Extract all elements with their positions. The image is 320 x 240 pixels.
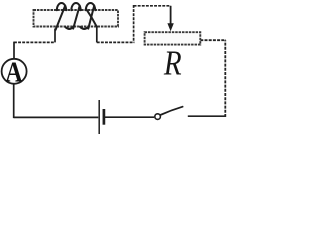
wire: vertical from top rail down — [133, 5, 135, 42]
rheostat R body — [145, 32, 201, 44]
wire: right vertical — [224, 40, 226, 117]
switch S blade (open) — [160, 107, 182, 115]
battery cell: short negative plate — [103, 109, 106, 125]
wire: bottom rail left segment — [14, 116, 99, 118]
ammeter A — [2, 59, 27, 84]
rheostat slider arrow — [170, 6, 172, 25]
wire: left horizontal to ammeter branch — [14, 41, 55, 43]
svg-text:A: A — [5, 56, 22, 87]
wire: battery to switch — [105, 116, 154, 118]
wire: top rail to slider — [134, 5, 171, 7]
solenoid core (iron bar) — [34, 10, 119, 27]
wire: rheostat right lead — [200, 39, 226, 41]
wire: coil left lead down — [54, 29, 56, 43]
svg-text:R: R — [163, 43, 182, 82]
wire: below ammeter down to bottom rail — [13, 84, 15, 118]
wire: bottom rail right segment — [188, 115, 226, 117]
wire: coil right lead down — [96, 27, 98, 42]
switch S pivot — [155, 114, 161, 120]
solenoid coil L1 — [56, 3, 97, 30]
battery cell: long positive plate — [98, 100, 100, 134]
wire: left vertical down to ammeter — [13, 42, 15, 59]
wire: horizontal from coil right lead — [97, 41, 135, 43]
